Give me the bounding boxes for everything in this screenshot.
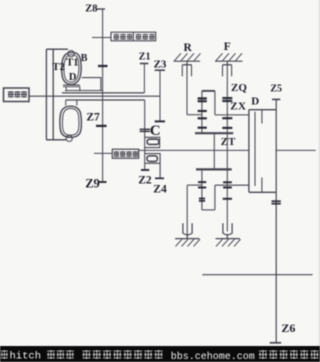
- svg-text:D: D: [251, 96, 259, 108]
- svg-text:Z9: Z9: [85, 177, 100, 191]
- svg-text:ZT: ZT: [221, 137, 236, 148]
- svg-text:D: D: [69, 72, 77, 83]
- svg-text:Z5: Z5: [270, 84, 282, 95]
- svg-text:bbs.cehome.com: bbs.cehome.com: [171, 351, 255, 362]
- svg-text:R: R: [184, 42, 193, 54]
- svg-text:Z6: Z6: [281, 321, 295, 335]
- svg-text:Z1: Z1: [139, 52, 151, 63]
- svg-text:Z8: Z8: [85, 3, 97, 14]
- svg-text:Z2: Z2: [138, 175, 152, 187]
- svg-text:F: F: [224, 41, 231, 53]
- svg-text:Z7: Z7: [86, 112, 100, 124]
- svg-text:T1: T1: [66, 58, 78, 69]
- svg-text:ZQ: ZQ: [231, 82, 247, 94]
- svg-text:Z4: Z4: [153, 184, 167, 196]
- svg-text:ZX: ZX: [230, 101, 246, 113]
- svg-text:T2: T2: [52, 61, 65, 73]
- svg-text:Z3: Z3: [154, 59, 167, 71]
- svg-text:B: B: [81, 53, 88, 64]
- svg-text:C: C: [150, 123, 161, 139]
- svg-text:hitch: hitch: [10, 351, 42, 362]
